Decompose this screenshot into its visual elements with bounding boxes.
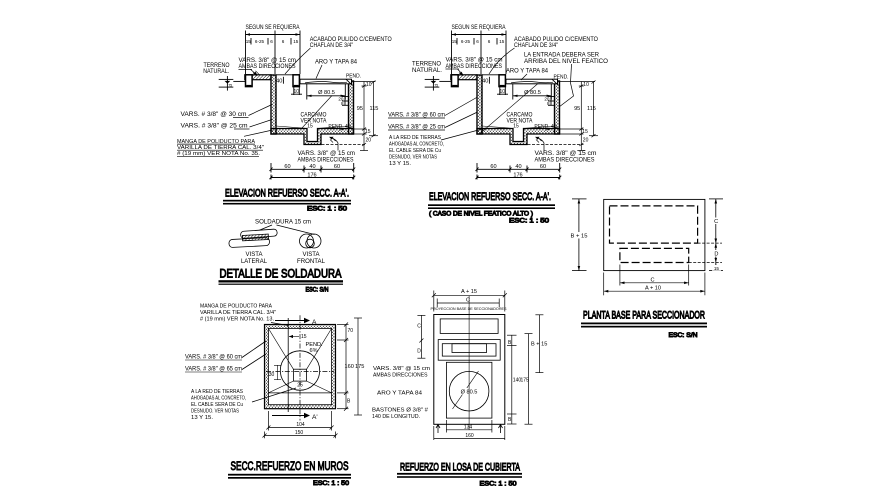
svg-text:VARS. # 3/8" @ 30 cm: VARS. # 3/8" @ 30 cm: [181, 111, 247, 118]
svg-text:D: D: [714, 252, 718, 258]
svg-text:104: 104: [296, 422, 305, 428]
svg-text:150: 150: [295, 430, 304, 436]
svg-text:VER NOTA: VER NOTA: [301, 118, 328, 125]
svg-text:60: 60: [334, 164, 340, 170]
svg-text:95: 95: [357, 106, 363, 112]
svg-text:C: C: [714, 219, 718, 225]
svg-text:( CASO DE NIVEL FEATICO ALTO ): ( CASO DE NIVEL FEATICO ALTO ): [429, 211, 533, 218]
svg-text:C: C: [417, 324, 421, 330]
svg-text:PROYECCION BASE DE SECCIONADOR: PROYECCION BASE DE SECCIONADORES: [431, 306, 507, 311]
svg-text:EL CABLE SERA DE Cu: EL CABLE SERA DE Cu: [389, 148, 441, 154]
svg-text:25: 25: [297, 383, 303, 389]
svg-text:6: 6: [282, 39, 285, 44]
svg-text:B + 15: B + 15: [531, 342, 547, 348]
svg-text:40: 40: [309, 164, 315, 170]
svg-text:C: C: [466, 297, 470, 303]
svg-text:A': A': [312, 414, 318, 421]
svg-text:6%: 6%: [310, 348, 318, 354]
svg-text:AMBAS DIRECCIONES: AMBAS DIRECCIONES: [298, 156, 354, 163]
svg-text:A + 15: A + 15: [461, 289, 477, 295]
svg-text:EL CABLE SERA DE Cu: EL CABLE SERA DE Cu: [191, 402, 243, 408]
svg-text:40: 40: [276, 79, 282, 85]
svg-text:FRONTAL: FRONTAL: [297, 258, 325, 265]
svg-text:95: 95: [574, 106, 580, 112]
svg-text:REFUERZO EN LOSA DE CUBIERTA: REFUERZO EN LOSA DE CUBIERTA: [400, 462, 520, 474]
svg-text:15: 15: [365, 129, 371, 135]
svg-text:A LA RED DE TIERRAS: A LA RED DE TIERRAS: [389, 135, 441, 141]
svg-text:15: 15: [714, 266, 720, 271]
svg-text:140 DE LONGITUD.: 140 DE LONGITUD.: [372, 414, 420, 420]
svg-text:VARS. # 3/8" @ 60 cm: VARS. # 3/8" @ 60 cm: [185, 354, 242, 361]
svg-text:VARS. # 3/8" @ 65 cm: VARS. # 3/8" @ 65 cm: [185, 366, 242, 373]
svg-text:15: 15: [293, 39, 299, 44]
svg-text:A + 10: A + 10: [645, 286, 661, 292]
svg-text:10: 10: [366, 82, 372, 88]
svg-text:AHOGADAS AL CONCRETO,: AHOGADAS AL CONCRETO,: [191, 396, 246, 402]
svg-text:15: 15: [246, 39, 252, 44]
svg-text:Ø 80.5: Ø 80.5: [318, 90, 335, 96]
svg-text:B + 15: B + 15: [571, 234, 588, 240]
svg-text:NATURAL.: NATURAL.: [203, 68, 229, 75]
svg-text:8: 8: [341, 101, 344, 106]
svg-text:CHAFLAN DE 3/4": CHAFLAN DE 3/4": [514, 42, 558, 49]
svg-text:30: 30: [269, 372, 275, 378]
svg-text:ELEVACION REFUERSO SECC. A-A'.: ELEVACION REFUERSO SECC. A-A'.: [429, 191, 551, 203]
svg-text:DESNUDO. VER NOTAS: DESNUDO. VER NOTAS: [191, 409, 239, 415]
svg-text:6-25: 6-25: [255, 39, 265, 44]
svg-text:70: 70: [348, 328, 354, 334]
svg-text:175: 175: [521, 378, 530, 384]
svg-text:AMBAS DIRECCIONES: AMBAS DIRECCIONES: [535, 156, 595, 163]
svg-text:NATURAL.: NATURAL.: [412, 67, 442, 74]
svg-text:AMBAS DIRECCIONES: AMBAS DIRECCIONES: [373, 373, 428, 379]
svg-text:ESC: S/N: ESC: S/N: [306, 287, 329, 294]
svg-text:C: C: [650, 277, 654, 283]
svg-text:MANGA DE POLIDUCTO PARA: MANGA DE POLIDUCTO PARA: [200, 304, 272, 310]
svg-text:ARRIBA DEL NIVEL FEATICO: ARRIBA DEL NIVEL FEATICO: [524, 58, 608, 65]
svg-text:176: 176: [307, 172, 316, 178]
svg-text:75: 75: [228, 84, 232, 88]
svg-text:D: D: [417, 349, 421, 355]
svg-text:6: 6: [270, 39, 273, 44]
svg-text:ELEVACION REFUERSO SECC. A-A'.: ELEVACION REFUERSO SECC. A-A'.: [225, 188, 349, 200]
svg-text:VARS. # 3/8" @ 25 cm: VARS. # 3/8" @ 25 cm: [388, 124, 445, 131]
svg-text:ESC: S/N: ESC: S/N: [669, 332, 698, 339]
svg-text:10: 10: [294, 89, 300, 95]
svg-text:10: 10: [583, 82, 589, 88]
svg-text:PEND.: PEND.: [346, 74, 361, 80]
svg-text:ESC: 1 : 50: ESC: 1 : 50: [313, 480, 349, 487]
svg-text:ARO Y TAPA 84: ARO Y TAPA 84: [315, 59, 357, 66]
svg-text:15: 15: [307, 124, 313, 130]
svg-text:DETALLE DE SOLDADURA: DETALLE DE SOLDADURA: [220, 267, 343, 281]
svg-text:175: 175: [355, 364, 364, 370]
svg-text:115: 115: [587, 106, 596, 112]
svg-text:VISTA: VISTA: [303, 251, 321, 258]
svg-text:13 Y 15.: 13 Y 15.: [389, 161, 411, 167]
svg-text:VARS. # 3/8" @ 25 cm: VARS. # 3/8" @ 25 cm: [181, 123, 248, 130]
svg-text:15: 15: [301, 334, 307, 340]
svg-text:VISTA: VISTA: [246, 251, 264, 258]
svg-text:BASTONES Ø 3/8" #: BASTONES Ø 3/8" #: [372, 408, 429, 414]
svg-text:LATERAL: LATERAL: [241, 258, 267, 265]
svg-text:ESC: 1 : 50: ESC: 1 : 50: [509, 218, 549, 225]
svg-text:ARO Y TAPA 84: ARO Y TAPA 84: [377, 390, 422, 396]
svg-text:A: A: [312, 319, 317, 326]
svg-text:ESC: 1 : 50: ESC: 1 : 50: [307, 206, 347, 213]
svg-text:15: 15: [582, 129, 588, 135]
svg-text:SOLDADURA 15 cm: SOLDADURA 15 cm: [255, 219, 311, 226]
svg-text:VARS. # 3/8" @ 60 cm: VARS. # 3/8" @ 60 cm: [388, 112, 445, 119]
svg-text:160: 160: [345, 364, 354, 370]
svg-text:# (19 mm) VER NOTA No. 13.: # (19 mm) VER NOTA No. 13.: [200, 317, 274, 323]
svg-text:ESC: 1 : 50: ESC: 1 : 50: [480, 481, 517, 488]
svg-text:20: 20: [366, 138, 372, 144]
svg-text:20: 20: [583, 138, 589, 144]
svg-text:PEND. 45: PEND. 45: [328, 124, 350, 130]
svg-text:CHAFLAN DE 3/4": CHAFLAN DE 3/4": [310, 42, 354, 49]
svg-text:PLANTA BASE PARA SECCIONADOR: PLANTA BASE PARA SECCIONADOR: [583, 310, 705, 322]
svg-text:SECC.REFUERZO EN MUROS: SECC.REFUERZO EN MUROS: [231, 459, 349, 473]
svg-text:DESNUDO, VER NOTAS: DESNUDO, VER NOTAS: [389, 155, 437, 161]
svg-text:PEND.: PEND.: [554, 75, 569, 81]
svg-text:60: 60: [284, 164, 290, 170]
svg-text:VARILLA DE TIERRA CAL. 3/4": VARILLA DE TIERRA CAL. 3/4": [200, 310, 276, 316]
svg-text:13 Y 15.: 13 Y 15.: [191, 415, 213, 421]
svg-text:134: 134: [464, 424, 473, 430]
svg-text:A LA RED DE TIERRAS: A LA RED DE TIERRAS: [191, 389, 243, 395]
svg-text:SEGUN SE REQUIERA: SEGUN SE REQUIERA: [246, 24, 301, 31]
svg-text:AHOGADAS AL CONCRETO,: AHOGADAS AL CONCRETO,: [389, 142, 444, 148]
svg-text:160: 160: [465, 433, 474, 439]
svg-text:115: 115: [370, 106, 379, 112]
svg-text:ARO Y TAPA 84: ARO Y TAPA 84: [506, 68, 548, 75]
svg-text:VARS. 3/8" @ 15 cm: VARS. 3/8" @ 15 cm: [373, 366, 430, 372]
